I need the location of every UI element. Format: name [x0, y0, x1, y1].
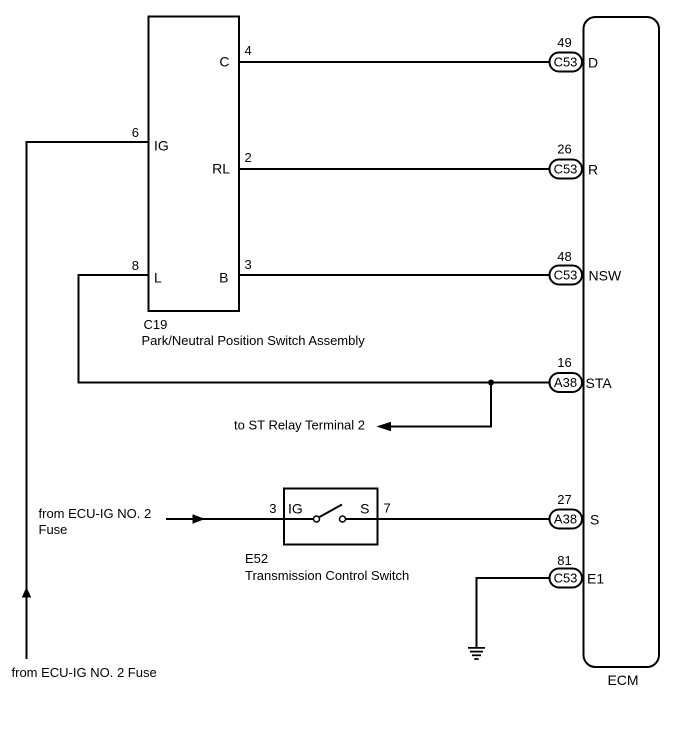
- label from ECU-IG NO. 2 Fuse (middle): [39, 506, 152, 537]
- connector C19 Park/Neutral Position Switch Assembly: [142, 17, 366, 349]
- svg-text:48: 48: [557, 249, 571, 264]
- svg-text:C53: C53: [554, 268, 578, 283]
- svg-text:26: 26: [557, 142, 571, 157]
- svg-text:B: B: [219, 270, 228, 286]
- wire C19 pin IG to left bus: [27, 142, 149, 659]
- arrowhead up on IG supply wire: [22, 587, 32, 598]
- svg-text:E1: E1: [587, 571, 604, 587]
- svg-text:C19: C19: [144, 317, 168, 332]
- svg-text:A38: A38: [554, 375, 577, 390]
- svg-text:C53: C53: [554, 55, 578, 70]
- svg-text:IG: IG: [288, 501, 303, 517]
- wire C19 pin L to ECM pin STA: [79, 275, 551, 383]
- svg-text:from ECU-IG NO. 2: from ECU-IG NO. 2: [39, 506, 152, 521]
- junction node on STA wire: [488, 380, 494, 386]
- svg-text:STA: STA: [586, 375, 613, 391]
- arrowhead right on fuse wire: [193, 514, 206, 524]
- ground: [468, 648, 485, 659]
- svg-text:IG: IG: [154, 138, 169, 154]
- svg-text:RL: RL: [212, 161, 230, 177]
- terminal oval A38 pin 27 (S): [550, 492, 600, 529]
- wire C19 pin RL to ECM pin R: [239, 168, 550, 170]
- terminal oval A38 pin 16 (STA): [550, 355, 613, 392]
- wire into switch contact: [284, 518, 313, 520]
- svg-text:E52: E52: [245, 551, 268, 566]
- svg-text:S: S: [360, 501, 369, 517]
- svg-text:ECM: ECM: [607, 672, 638, 688]
- svg-text:16: 16: [557, 355, 571, 370]
- svg-text:4: 4: [245, 43, 252, 58]
- svg-text:NSW: NSW: [589, 268, 622, 284]
- wire branch to ST relay: [390, 383, 491, 427]
- wire C19 pin B to ECM pin NSW: [239, 274, 550, 276]
- svg-text:S: S: [590, 512, 599, 528]
- svg-text:A38: A38: [554, 512, 577, 527]
- svg-text:Transmission Control Switch: Transmission Control Switch: [245, 568, 409, 583]
- switch contact left: [314, 516, 320, 522]
- ECM module body: [584, 17, 660, 688]
- svg-text:Fuse: Fuse: [39, 522, 68, 537]
- switch contact right: [340, 516, 346, 522]
- svg-text:2: 2: [245, 150, 252, 165]
- svg-text:27: 27: [557, 492, 571, 507]
- svg-text:to ST Relay Terminal 2: to ST Relay Terminal 2: [234, 418, 365, 433]
- svg-text:Park/Neutral Position Switch A: Park/Neutral Position Switch Assembly: [142, 333, 366, 348]
- switch lever: [320, 505, 343, 518]
- terminal oval C53 pin 81 (E1): [550, 553, 605, 588]
- terminal oval C53 pin 26 (R): [550, 142, 599, 179]
- svg-text:D: D: [588, 55, 598, 71]
- svg-text:L: L: [154, 270, 162, 286]
- svg-text:3: 3: [245, 257, 252, 272]
- svg-text:49: 49: [557, 35, 571, 50]
- svg-text:8: 8: [132, 258, 139, 273]
- wire C19 pin C to ECM pin D: [239, 61, 550, 63]
- switch E52 Transmission Control Switch: [245, 489, 409, 584]
- svg-text:C53: C53: [554, 162, 578, 177]
- arrowhead left to ST relay: [377, 422, 392, 432]
- svg-text:81: 81: [557, 553, 571, 568]
- svg-text:R: R: [588, 162, 598, 178]
- wire ECM pin E1 to ground: [477, 578, 551, 647]
- svg-text:7: 7: [384, 501, 391, 516]
- terminal oval C53 pin 48 (NSW): [550, 249, 622, 285]
- svg-text:from ECU-IG NO. 2 Fuse: from ECU-IG NO. 2 Fuse: [12, 665, 157, 680]
- wire from fuse to E52 pin IG: [166, 518, 284, 520]
- svg-text:6: 6: [132, 125, 139, 140]
- svg-text:3: 3: [269, 501, 276, 516]
- svg-text:C: C: [219, 54, 229, 70]
- wire switch to ECM pin S: [346, 518, 550, 520]
- terminal oval C53 pin 49 (D): [550, 35, 599, 72]
- svg-text:C53: C53: [554, 571, 578, 586]
